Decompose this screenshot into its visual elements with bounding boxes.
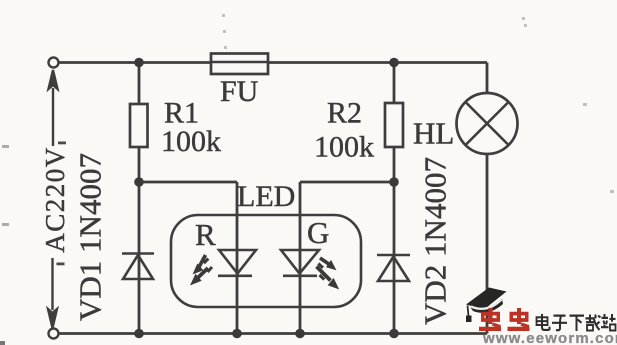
svg-text:VD2 1N4007: VD2 1N4007 xyxy=(418,157,453,325)
svg-text:R: R xyxy=(195,217,216,252)
svg-text:www.eeworm.com: www.eeworm.com xyxy=(482,330,617,345)
svg-text:FU: FU xyxy=(220,75,259,108)
svg-text:LED: LED xyxy=(237,180,295,213)
svg-text:100k: 100k xyxy=(161,125,221,158)
svg-text:G: G xyxy=(307,215,329,250)
svg-text:VD1 1N4007: VD1 1N4007 xyxy=(73,153,108,321)
svg-text:AC220V: AC220V xyxy=(40,146,70,253)
svg-text:R2: R2 xyxy=(327,97,362,130)
svg-text:100k: 100k xyxy=(314,131,374,164)
svg-text:HL: HL xyxy=(413,116,454,151)
